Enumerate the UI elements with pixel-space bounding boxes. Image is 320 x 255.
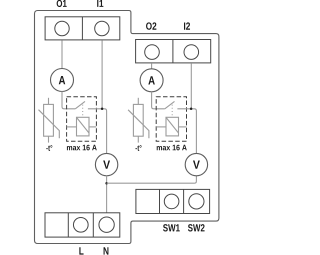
voltmeter V2 xyxy=(185,153,207,175)
wire O2 to ammeter A2 xyxy=(151,63,153,69)
terminal block SW1/SW2 xyxy=(136,189,210,213)
thermistor -t (left) xyxy=(39,98,60,143)
relay K2 mechanical link xyxy=(171,105,173,117)
relay K1 mechanical link xyxy=(82,105,84,117)
label I2 xyxy=(184,22,190,29)
label max 16 A (left) xyxy=(67,145,97,151)
terminal N xyxy=(99,217,114,232)
wire A2 to relay contact xyxy=(152,92,165,109)
relay K2 contact fixed line to junction and down to voltmeter xyxy=(177,109,196,154)
terminal I2 xyxy=(184,45,199,60)
terminal SW2 xyxy=(189,194,204,209)
relay K1 coil xyxy=(67,117,97,136)
relay K2 contact blade xyxy=(165,101,175,108)
terminal O1 xyxy=(55,21,69,35)
junction I2/contact xyxy=(190,108,193,111)
label max 16 A (right) xyxy=(157,145,187,151)
terminal O2 xyxy=(145,45,160,60)
label O2 xyxy=(146,22,156,29)
label -t (right) xyxy=(135,145,141,151)
wire I1 down to junction xyxy=(101,40,103,108)
wire V1 to N terminal xyxy=(106,176,108,213)
terminal I1 xyxy=(95,21,109,35)
label SW2 xyxy=(188,224,205,231)
terminal SW1 xyxy=(164,194,179,209)
voltmeter V1 xyxy=(95,153,117,175)
junction I1/contact xyxy=(101,108,104,111)
terminal L xyxy=(73,217,88,232)
wire O1 to ammeter A1 xyxy=(61,40,63,68)
terminal block O2/I2 xyxy=(136,40,211,63)
label -t (left) xyxy=(46,145,52,151)
relay K1 contact fixed line to junction and down to voltmeter xyxy=(88,109,107,154)
wire between voltmeters xyxy=(107,176,197,183)
terminal block O1/I1 xyxy=(45,17,120,40)
terminal block L/N xyxy=(45,213,120,237)
relay K2 dashed box xyxy=(156,97,186,142)
ammeter A2 xyxy=(140,69,163,92)
relay K1 dashed box xyxy=(67,97,97,142)
label N xyxy=(104,247,109,254)
wire I2 down to junction xyxy=(190,63,192,109)
wire A1 to relay contact xyxy=(62,91,75,108)
junction V1/N wire xyxy=(105,182,108,185)
ammeter A1 xyxy=(51,69,74,92)
label O1 xyxy=(57,0,67,7)
label I1 xyxy=(97,0,103,7)
relay K1 contact blade xyxy=(75,101,85,108)
thermistor -t (right) xyxy=(128,98,149,143)
label L xyxy=(79,247,83,254)
relay K2 coil xyxy=(156,117,186,136)
enclosure outline xyxy=(35,11,219,244)
label SW1 xyxy=(163,224,180,231)
